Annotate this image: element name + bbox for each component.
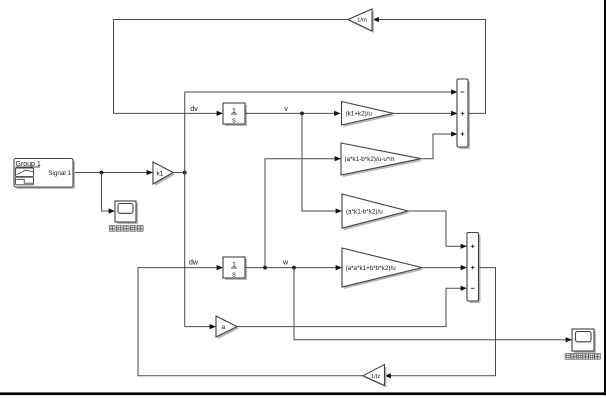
wire: sum1 out up to 1/m bbox=[379, 20, 486, 114]
scope1 block bbox=[115, 201, 138, 224]
wire: gain3 out to sum2 first input bbox=[408, 211, 462, 246]
wire: signal builder output to k1 bbox=[75, 172, 150, 174]
gain (a*a*k1+b*b*k2)/u bbox=[342, 248, 424, 289]
svg-text:v: v bbox=[284, 106, 288, 113]
sum2 block bbox=[467, 233, 481, 304]
node: v junction bbox=[300, 112, 304, 116]
svg-text:k1: k1 bbox=[157, 170, 164, 177]
integrator 2 (1/s) bbox=[223, 257, 247, 280]
node: junction on signal wire bbox=[100, 171, 104, 175]
icon bottom thumbnail bbox=[16, 177, 34, 185]
label: scope2 横摆角速度 bbox=[565, 354, 600, 360]
svg-text:s: s bbox=[232, 269, 236, 278]
svg-text:a: a bbox=[222, 324, 226, 331]
svg-text:1: 1 bbox=[232, 260, 236, 269]
gain (a*k1-b*k2)/u bbox=[342, 194, 410, 230]
label: scope1 角阶跃输入 bbox=[109, 226, 143, 232]
svg-text:dw: dw bbox=[189, 259, 199, 266]
icon top thumbnail bbox=[16, 168, 34, 177]
wire: dw line from 1/Iz loop into integrator2 bbox=[138, 268, 363, 376]
page bottom border bbox=[0, 392, 606, 395]
svg-text:(a*k1-b*k2)/u-u*m: (a*k1-b*k2)/u-u*m bbox=[345, 156, 395, 163]
wire: w branch up to gain2 bbox=[265, 159, 336, 268]
wire: gain4 out to sum2 middle input bbox=[422, 267, 462, 269]
svg-text:1/Iz: 1/Iz bbox=[371, 374, 381, 380]
svg-text:Signal 1: Signal 1 bbox=[48, 170, 71, 177]
wire: dv feedback from 1/m to integrator1 bbox=[114, 20, 349, 114]
wire: w to scope2 bbox=[294, 268, 566, 340]
wire: top branch to sum1 minus bbox=[185, 91, 452, 93]
gain (k1+k2)/u bbox=[342, 102, 396, 128]
signal builder block (Group 1 / Signal 1) bbox=[14, 159, 75, 190]
gain 1/Iz (left pointing) bbox=[363, 365, 387, 388]
wire: bottom branch to gain a bbox=[185, 326, 211, 328]
wire: integrator2 out (w line) bbox=[245, 267, 337, 269]
node: k1 output junction bbox=[183, 171, 187, 175]
scope2 block bbox=[572, 329, 596, 353]
svg-text:(a*k1-b*k2)/u: (a*k1-b*k2)/u bbox=[346, 208, 383, 215]
gain (a*k1-b*k2)/u-u*m bbox=[341, 143, 423, 177]
node: w junction 2 bbox=[292, 266, 296, 270]
gain 1/m (left pointing) bbox=[348, 9, 374, 33]
gain a bbox=[216, 316, 239, 339]
svg-text:(k1+k2)/u: (k1+k2)/u bbox=[346, 111, 373, 118]
svg-text:(a*a*k1+b*b*k2)/u: (a*a*k1+b*b*k2)/u bbox=[346, 265, 397, 272]
sign minus bbox=[471, 287, 475, 289]
integrator 1 (1/s) bbox=[223, 103, 247, 126]
arrowhead into k1 bbox=[147, 170, 153, 175]
sign minus bbox=[461, 91, 465, 93]
gain k1 bbox=[153, 162, 175, 186]
wire: sum2 out down to 1/Iz bbox=[391, 268, 496, 376]
sign plus bbox=[461, 112, 465, 114]
svg-text:s: s bbox=[232, 115, 236, 124]
wire: branch down to scope1 bbox=[102, 173, 111, 212]
sign plus bbox=[471, 245, 475, 247]
wire: v branch down to gain3 bbox=[302, 113, 336, 211]
sign plus bbox=[461, 133, 465, 135]
svg-text:1: 1 bbox=[232, 106, 236, 115]
node: w junction 1 bbox=[263, 266, 267, 270]
wire: gain1 out to sum1 bbox=[394, 112, 453, 114]
sign plus bbox=[471, 267, 475, 269]
wire: gain2 out up to sum1 third input bbox=[421, 134, 452, 159]
wire: integrator1 out (v line) bbox=[245, 112, 335, 114]
wire: k1 junction vertical trunk bbox=[184, 92, 186, 327]
svg-text:1/m: 1/m bbox=[357, 18, 367, 24]
page right border bbox=[604, 0, 606, 395]
svg-text:dv: dv bbox=[190, 106, 198, 113]
sum1 block bbox=[457, 79, 470, 149]
svg-text:w: w bbox=[282, 259, 289, 266]
wire: k1 out to junction bbox=[173, 172, 185, 174]
wire: gain a out up to sum2 minus bbox=[237, 288, 462, 326]
